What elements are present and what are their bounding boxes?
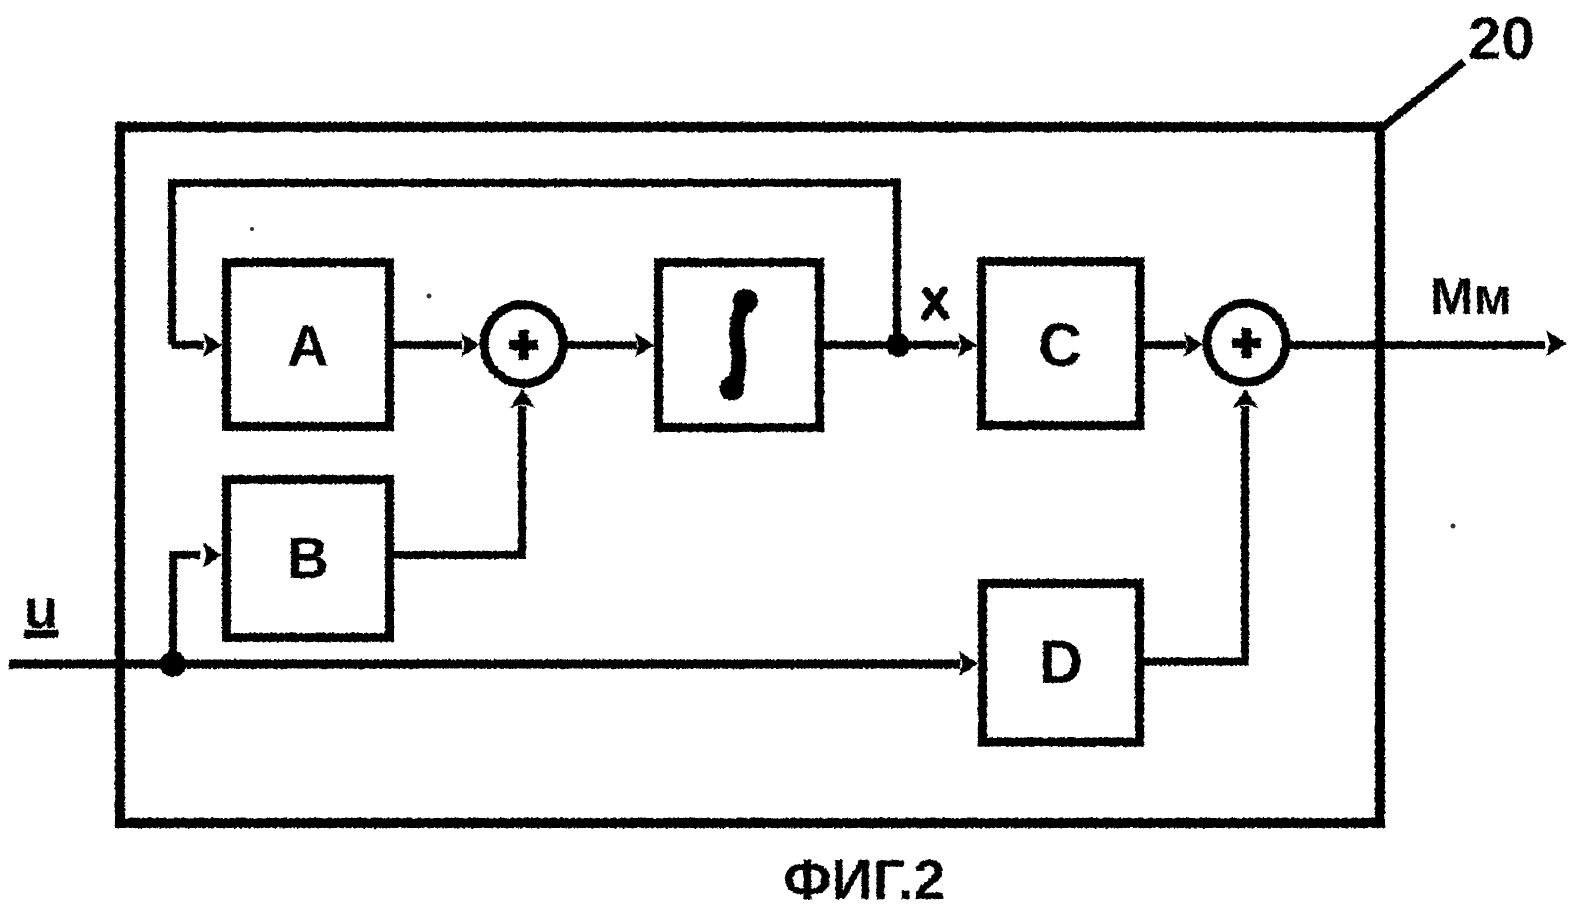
svg-text:C: C [1038,311,1082,379]
svg-text:A: A [287,314,329,379]
svg-text:B: B [287,526,329,591]
svg-text:Мм: Мм [1430,268,1512,326]
svg-text:ФИГ.2: ФИГ.2 [783,848,945,912]
svg-text:20: 20 [1468,5,1535,72]
svg-text:D: D [1039,628,1083,696]
